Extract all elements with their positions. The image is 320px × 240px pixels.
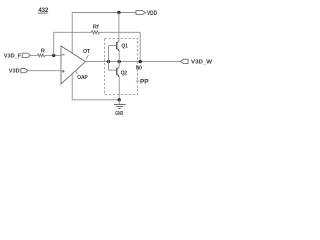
resistor R [38,49,46,57]
junction dot emitter-collector [118,60,121,63]
svg-text:PP: PP [140,79,149,86]
wire feedback vertical left [53,32,55,55]
transistor Q1 [117,40,128,51]
node inverting input junction dot [52,54,55,57]
wire V3D_F to resistor R [30,54,37,56]
wire V3D to non-inverting input [28,70,61,72]
junction dot on VDD rail [117,11,120,14]
push-pull block PP dashed box [105,38,138,94]
wire Q1 base lead [109,45,117,47]
label OAP with leader [76,71,89,81]
op-amp OAP [61,46,86,84]
wire op-amp output N0 line [86,61,181,63]
wire feedback horizontal left of Rf [54,31,92,33]
svg-text:OT: OT [83,49,91,55]
port VDD [136,10,158,17]
svg-text:OAP: OAP [77,75,88,81]
svg-text:V3D_F: V3D_F [4,53,22,59]
svg-text:V3D_W: V3D_W [191,59,213,65]
wire feedback horizontal right of Rf [100,31,141,33]
transistor Q2 [117,67,127,77]
svg-text:Q1: Q1 [121,43,128,49]
wire resistor R to inverting input node [45,54,61,56]
wire Q1 collector to VDD rail [118,13,120,41]
svg-text:VDD: VDD [147,11,158,17]
resistor Rf [92,24,100,33]
reference label 432 [38,7,49,14]
ground GND [114,100,126,117]
port V3D_W [181,59,213,65]
wire bottom ground rail [72,99,119,101]
wire Q2 emitter down [118,77,120,100]
port V3D [9,69,28,75]
svg-text:N0: N0 [136,65,142,71]
svg-text:GND: GND [115,111,123,117]
svg-text:Rf: Rf [93,24,99,30]
wire base drive vertical [108,46,110,71]
junction dot ground [118,98,121,101]
wire feedback vertical right down to node N0 [139,32,141,61]
label PP with leader dash [136,79,149,86]
svg-text:Q2: Q2 [121,71,128,77]
wire Q2 base lead [109,69,117,71]
port V3D_F [4,53,30,59]
wire Q2 collector to node [118,62,120,67]
label OT with leader [83,49,91,59]
wire Q1 emitter to node [118,51,120,62]
wire op-amp top power [71,13,73,54]
wire top VDD rail [72,12,136,14]
wire op-amp bottom power vertical [71,74,73,100]
junction dot node N0 [139,60,142,63]
svg-text:V3D: V3D [9,69,20,75]
junction dot base wire [107,60,110,63]
